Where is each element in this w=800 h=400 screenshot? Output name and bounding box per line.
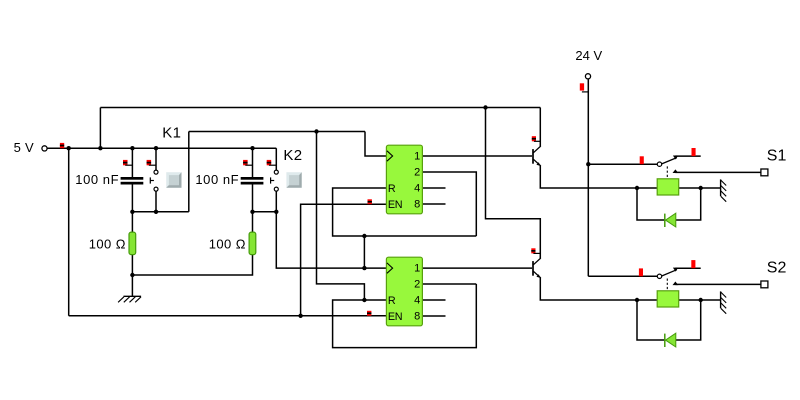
svg-text:K2: K2 <box>283 147 302 164</box>
wire pin8 U2 stub <box>422 315 445 317</box>
5V SOURCE <box>14 140 65 155</box>
wire relay2 throw to S2 <box>675 283 761 285</box>
node K1 bottom sw <box>154 210 158 214</box>
svg-text:100 Ω: 100 Ω <box>89 236 126 251</box>
svg-text:5 V: 5 V <box>14 140 34 155</box>
svg-text:EN: EN <box>388 311 402 323</box>
wire relay2 common <box>588 275 657 277</box>
marker SW1 <box>147 160 152 165</box>
wire cap C2 top <box>252 148 254 177</box>
marker 5V <box>60 143 64 148</box>
wire EN1 net <box>301 204 387 316</box>
node K1 top run <box>314 129 318 133</box>
wire cap C1 top <box>131 148 133 177</box>
wire riser to top rail <box>99 108 101 149</box>
marker 24V <box>580 83 584 90</box>
chassis ground 1 <box>720 179 722 196</box>
wire R1 reset net <box>333 188 477 236</box>
marker Q2 <box>531 248 535 253</box>
TRANSISTOR Q1 <box>532 136 541 166</box>
svg-text:100 Ω: 100 Ω <box>209 236 246 251</box>
marker RL2 common <box>639 268 643 276</box>
transistor Q1 <box>532 149 534 164</box>
K1 GROUP <box>75 124 181 302</box>
svg-text:2: 2 <box>414 279 420 291</box>
svg-text:S1: S1 <box>767 147 787 164</box>
node coil2 right <box>699 298 703 302</box>
marker C1 <box>123 160 128 165</box>
svg-text:S2: S2 <box>767 260 787 277</box>
wire switch K1 top <box>155 148 157 170</box>
relay RL1 switch <box>657 162 661 166</box>
terminal S2 <box>761 281 768 288</box>
terminal 24V <box>585 74 590 79</box>
wire link pin2U1 to clock2 <box>363 236 365 268</box>
pushbutton SW1 button face <box>166 172 181 188</box>
clock chevron U1 <box>387 151 393 161</box>
wire relay2 diode loop left <box>637 300 665 340</box>
pushbutton SW2 button face <box>286 172 301 188</box>
wire pin1 U1 to Q1 base <box>422 155 532 157</box>
pushbutton SW1 contacts <box>154 170 158 174</box>
svg-text:R: R <box>388 295 396 307</box>
wire K1 top run <box>189 131 365 133</box>
node resistor bottoms <box>130 273 134 277</box>
wire cap C1 bottom <box>131 184 133 212</box>
clock chevron U2 <box>387 263 393 273</box>
svg-text:1: 1 <box>414 151 420 163</box>
wire relay1 diode loop left <box>637 188 665 220</box>
wire K1 riser <box>188 132 190 212</box>
node K2 bottom cap <box>250 210 254 214</box>
wire pin2 U2 feedback <box>422 283 476 285</box>
wire pin4 U2 stub <box>422 299 445 301</box>
svg-text:24 V: 24 V <box>575 48 602 63</box>
svg-text:100 nF: 100 nF <box>195 172 239 187</box>
node rail-riser <box>98 146 102 150</box>
svg-text:K1: K1 <box>162 124 181 141</box>
svg-text:8: 8 <box>414 311 420 323</box>
relay RL2 switch <box>657 274 661 278</box>
marker EN1 <box>368 199 372 204</box>
wire Q2 emitter run <box>540 278 637 300</box>
resistor R1 100ohm <box>129 232 136 255</box>
ground <box>124 295 142 297</box>
RELAY RL2 <box>639 260 787 348</box>
node pin2U1 net <box>362 234 366 238</box>
node K1 bottom cap <box>130 210 134 214</box>
wire K1 net drop to R2 <box>317 132 365 301</box>
wire 5V rail <box>47 147 276 149</box>
relay RL2 coil <box>657 291 679 307</box>
node R2 <box>362 298 366 302</box>
diode D1 <box>664 214 666 227</box>
COUNTER U1 <box>368 145 423 214</box>
node coil1 right <box>699 186 703 190</box>
relay RL1 coil <box>657 179 679 195</box>
wire relay1 upper throw <box>675 155 700 157</box>
transistor Q2 <box>532 261 534 276</box>
wire relay1 common <box>588 163 657 165</box>
wire resistor R1 top <box>131 212 133 232</box>
COUNTER U2 <box>367 257 422 326</box>
marker C2 <box>243 160 248 165</box>
wire relay2 coil right to chassis <box>679 299 721 301</box>
wire pin8 U1 stub <box>422 203 445 205</box>
node top rail branch <box>483 105 487 109</box>
svg-text:EN: EN <box>388 199 402 211</box>
wire bottom rail to EN2 <box>69 315 387 317</box>
wire relay1 coil right to chassis <box>679 187 721 189</box>
RELAY RL1 <box>640 147 787 227</box>
svg-text:100 nF: 100 nF <box>75 172 119 187</box>
TRANSISTOR Q2 <box>531 248 541 278</box>
terminal S1 <box>761 169 768 176</box>
wire K2 bottom link <box>253 211 277 213</box>
counter U1 body <box>386 145 422 214</box>
node coil1 left <box>635 186 639 190</box>
marker Q1 <box>532 136 536 141</box>
wire clock2 feed <box>276 212 386 268</box>
node clock2 <box>362 266 366 270</box>
capacitor C1 100nF <box>121 177 144 180</box>
wire clock1 feed <box>365 132 386 157</box>
wire K1 bottom link <box>132 211 188 213</box>
wire relay1 diode loop right <box>676 188 701 220</box>
wire pin2 U1 feedback <box>422 172 476 236</box>
chassis ground 2 <box>720 291 722 308</box>
node rail-sw1 <box>154 146 158 150</box>
marker EN2 <box>367 311 371 316</box>
node rail-left <box>67 146 71 150</box>
svg-text:4: 4 <box>414 295 420 307</box>
marker RL2 throw <box>691 260 695 268</box>
wire left drop to bottom rail <box>68 148 70 316</box>
wire relay2 coil left <box>637 299 657 301</box>
wire top rail <box>100 107 540 109</box>
svg-text:R: R <box>388 183 396 195</box>
capacitor C2 100nF <box>241 177 264 180</box>
diode D2 <box>664 334 666 347</box>
pushbutton SW2 contacts <box>274 170 278 174</box>
node 24V branch <box>586 162 590 166</box>
wire switch K2 bottom <box>275 191 277 212</box>
wire R2 reset net loop <box>333 284 477 348</box>
svg-text:4: 4 <box>414 183 420 195</box>
terminal 5V <box>42 146 47 151</box>
wire resistor bottoms link <box>132 255 252 275</box>
wire relay1 throw to S1 <box>675 171 761 173</box>
wire Q2 collector jog <box>486 108 541 259</box>
counter U2 body <box>386 257 422 326</box>
svg-text:1: 1 <box>414 263 420 275</box>
wire switch K1 bottom <box>155 191 157 212</box>
K2 GROUP <box>195 147 302 255</box>
marker SW2 <box>267 160 272 165</box>
wire ground stub <box>131 275 133 296</box>
wire resistor R2 top <box>252 212 254 232</box>
wire cap C2 bottom <box>252 184 254 212</box>
wire pin1 U2 to Q2 base <box>422 267 532 269</box>
svg-text:8: 8 <box>414 199 420 211</box>
node rail-cap1 <box>130 146 134 150</box>
wire relay1 coil left <box>637 187 657 189</box>
wire relay2 upper throw <box>675 267 700 269</box>
wire 24V drop <box>587 79 589 276</box>
wire pin4 U1 stub <box>422 187 445 189</box>
marker RL1 common <box>640 156 644 164</box>
wire Q1 collector <box>539 108 541 147</box>
wire Q1 emitter run <box>540 166 637 188</box>
wire resistor R1 bottom <box>131 255 133 275</box>
node rail-cap2 <box>250 146 254 150</box>
wire switch K2 top <box>275 148 277 170</box>
resistor R2 100ohm <box>249 232 256 255</box>
node coil2 left <box>635 298 639 302</box>
marker RL1 throw <box>692 148 696 156</box>
node EN join <box>298 314 302 318</box>
svg-text:2: 2 <box>414 167 420 179</box>
node K2 bottom sw <box>274 210 278 214</box>
24V SOURCE <box>575 48 602 92</box>
wire relay2 diode loop right <box>676 300 701 340</box>
